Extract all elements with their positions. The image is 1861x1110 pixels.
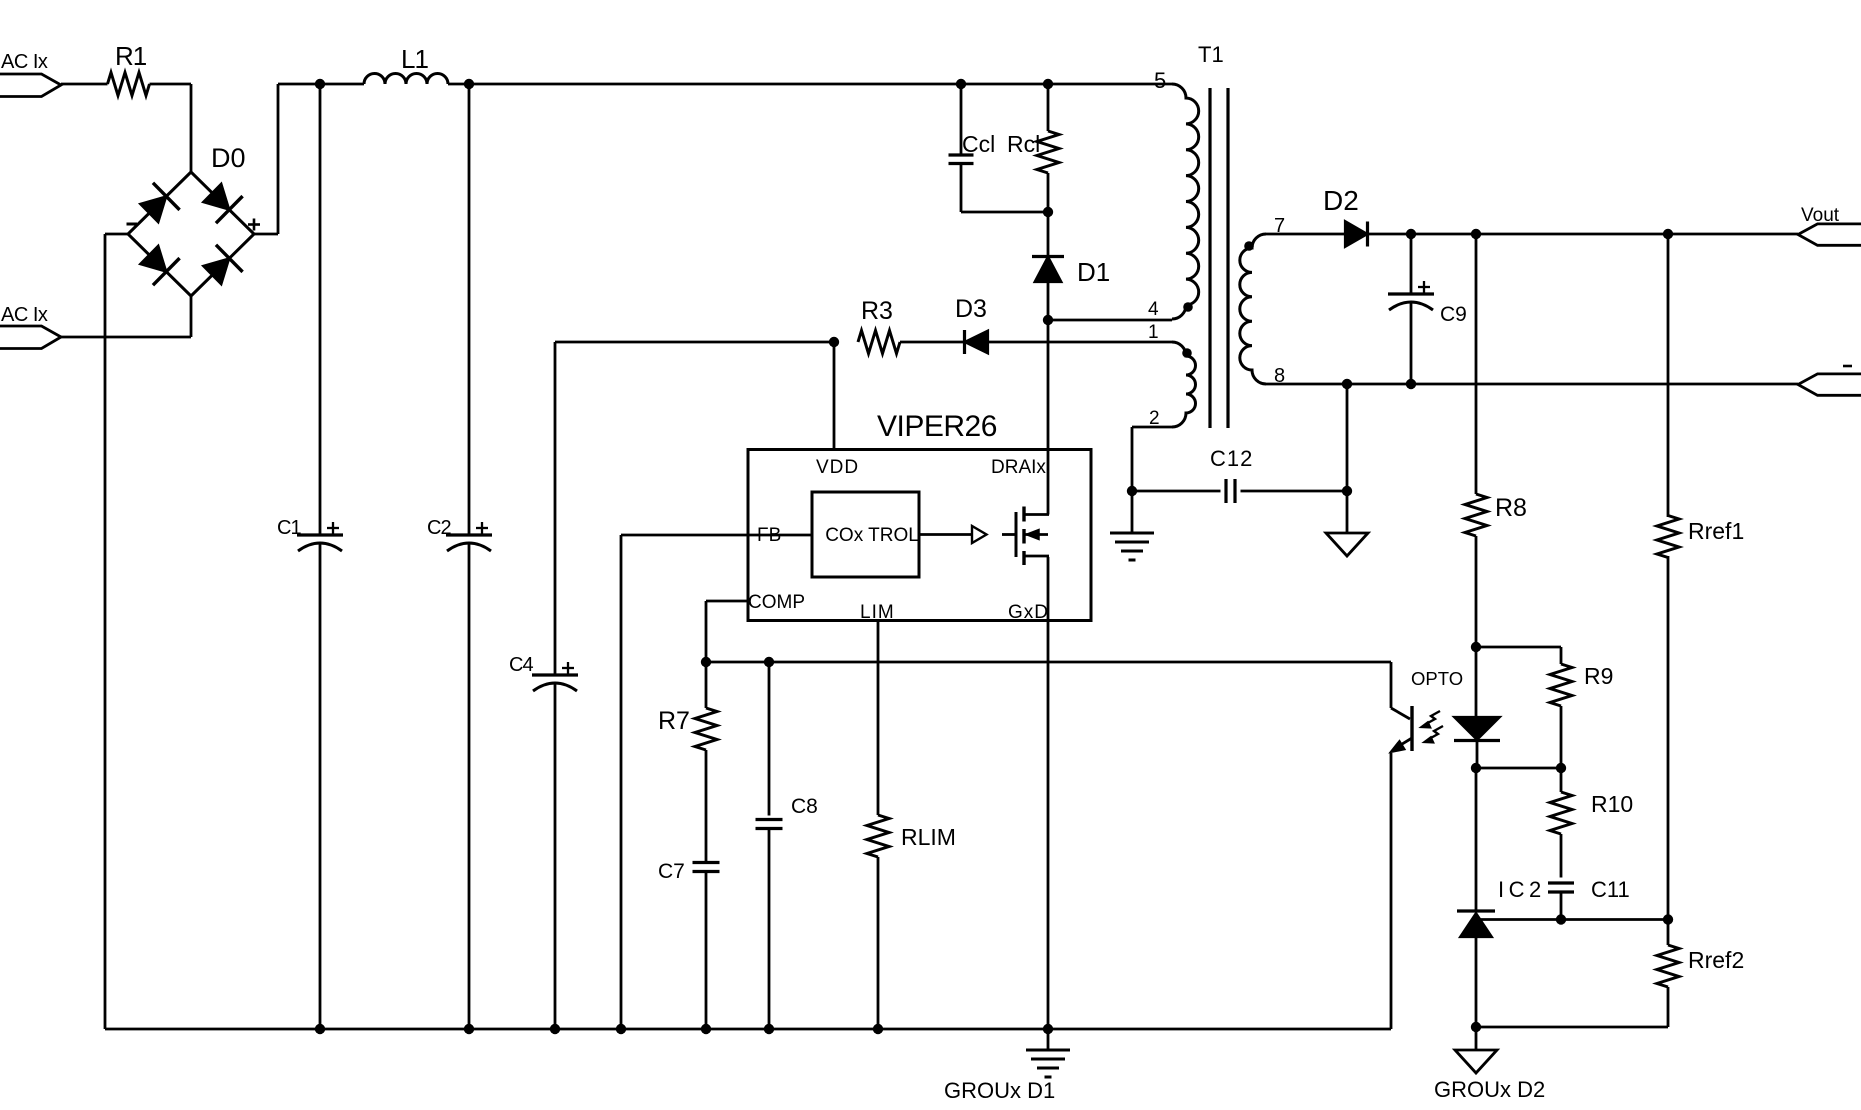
wire Rref2 return — [1476, 1026, 1668, 1029]
svg-text:R3: R3 — [861, 297, 893, 325]
wire bridge plus to top rail — [254, 84, 278, 234]
node C2 bottom — [464, 1024, 474, 1034]
resistor R1 — [108, 41, 150, 96]
wire VDD drop — [833, 342, 836, 450]
transistor Q1 power MOSFET — [1016, 507, 1049, 566]
diode D3 — [955, 295, 988, 354]
node drain pin4 junction — [1043, 315, 1053, 325]
svg-text:R8: R8 — [1495, 494, 1527, 522]
capacitor C11 — [1548, 877, 1630, 920]
resistor Rref1 — [1657, 234, 1744, 920]
connector AC input (top) — [0, 51, 61, 97]
wire COMP node to opto — [706, 661, 1391, 664]
wire D2 to Vout — [1367, 233, 1798, 236]
node COMP junction — [701, 657, 711, 667]
node C2 top — [464, 79, 474, 89]
node ref junction — [1663, 914, 1673, 924]
svg-text:Vout: Vout — [1801, 205, 1840, 226]
resistor R9 — [1550, 663, 1613, 768]
svg-text:C4: C4 — [509, 654, 533, 676]
resistor R8 — [1465, 234, 1527, 647]
svg-text:C7: C7 — [658, 860, 685, 883]
svg-text:RLIM: RLIM — [901, 824, 956, 850]
wire C4 top to R3 — [555, 341, 837, 344]
node C7 bottom — [701, 1024, 711, 1034]
node secondary polarity dot — [1244, 241, 1254, 251]
svg-text:R7: R7 — [658, 707, 690, 735]
ground earth (primary) — [944, 1029, 1070, 1103]
capacitor C4 — [509, 342, 578, 1029]
node RLIM bottom — [873, 1024, 883, 1034]
bridge rectifier D0 — [127, 143, 261, 296]
svg-text:VDD: VDD — [816, 457, 859, 478]
wire aux pin2 — [1132, 427, 1172, 491]
wire control block to buffer — [919, 533, 972, 536]
opto-coupler OPTO phototransistor — [1390, 662, 1443, 1029]
svg-text:VIPER26: VIPER26 — [877, 410, 997, 443]
node C8 bottom — [764, 1024, 774, 1034]
wire AC1 to R1 — [61, 83, 108, 86]
svg-text:L1: L1 — [401, 44, 428, 74]
wire D3 to aux pin 1 — [965, 341, 1172, 344]
svg-text:Ccl: Ccl — [962, 131, 995, 157]
node C1 top — [315, 79, 325, 89]
wire top rail right of L1 — [448, 83, 1172, 86]
transformer T1 primary winding — [1148, 68, 1199, 320]
capacitor Ccl — [949, 84, 1049, 212]
svg-text:R1: R1 — [115, 41, 147, 71]
svg-text:AC Ix: AC Ix — [1, 51, 48, 73]
node C1 bottom — [315, 1024, 325, 1034]
ground triangle (secondary) — [1434, 1027, 1545, 1102]
diode D1 — [1032, 212, 1110, 320]
node LED cathode junction — [1471, 763, 1481, 773]
svg-text:COx TROL: COx TROL — [825, 525, 919, 546]
wire pin7 to D2 — [1266, 233, 1345, 236]
wire drain line — [1047, 320, 1050, 515]
svg-text:GROUx D1: GROUx D1 — [944, 1078, 1055, 1103]
svg-text:Rref1: Rref1 — [1688, 518, 1744, 544]
node R8 top — [1471, 229, 1481, 239]
capacitor C8 — [756, 662, 818, 1029]
node secondary return — [1342, 379, 1352, 389]
svg-text:LIM: LIM — [860, 602, 895, 623]
ground earth (aux) — [1110, 491, 1154, 560]
wire LED node to R9 — [1476, 647, 1561, 664]
transformer T1 secondary winding — [1240, 215, 1285, 387]
node C9 bottom — [1406, 379, 1416, 389]
wire buffer to gate — [1002, 533, 1016, 536]
node Ccl top — [956, 79, 966, 89]
svg-text:C12: C12 — [1210, 446, 1253, 471]
wire FB into control block — [621, 534, 812, 537]
svg-text:D0: D0 — [211, 143, 246, 173]
node R10 top — [1556, 763, 1566, 773]
capacitor C2 — [427, 84, 492, 1029]
capacitor C7 — [658, 860, 720, 1029]
wire bridge minus to left rail — [105, 234, 128, 1029]
wire AC2 to bridge bottom — [61, 296, 191, 337]
wire secondary return drop — [1346, 384, 1349, 533]
node FB bottom — [616, 1024, 626, 1034]
svg-text:D1: D1 — [1077, 257, 1110, 287]
connector AC input (bottom) — [0, 304, 61, 349]
diode D2 — [1323, 185, 1368, 247]
resistor Rcl — [1007, 84, 1059, 212]
svg-text:D2: D2 — [1323, 185, 1359, 216]
node C11 bottom — [1556, 914, 1566, 924]
wire source to GxD to ground rail — [1047, 557, 1050, 1029]
svg-text:Rcl: Rcl — [1007, 131, 1040, 157]
svg-text:COMP: COMP — [748, 592, 805, 613]
resistor RLIM — [867, 621, 956, 1030]
svg-text:GxD: GxD — [1008, 602, 1049, 623]
wire top rail left of L1 — [278, 83, 364, 86]
transformer T1 auxiliary winding — [1148, 322, 1196, 429]
svg-text:R9: R9 — [1584, 663, 1613, 689]
node C9 top — [1406, 229, 1416, 239]
svg-text:AC Ix: AC Ix — [1, 304, 48, 326]
opto-coupler OPTO LED — [1411, 647, 1500, 768]
svg-text:C9: C9 — [1440, 303, 1467, 326]
node aux polarity dot — [1182, 348, 1192, 358]
connector Vout — [1798, 205, 1861, 245]
resistor R7 — [658, 662, 717, 863]
svg-text:T1: T1 — [1198, 42, 1224, 67]
svg-text:C11: C11 — [1591, 877, 1630, 902]
node aux ground junction — [1127, 486, 1137, 496]
node C8 top — [764, 657, 774, 667]
svg-text:DRAIx: DRAIx — [991, 457, 1046, 478]
resistor R3 — [858, 297, 900, 354]
svg-text:OPTO: OPTO — [1411, 668, 1463, 689]
op-amp U1 VIPER26 body — [748, 410, 1091, 623]
node secondary ground junction — [1471, 1022, 1481, 1032]
resistor Rref2 — [1657, 920, 1744, 1028]
capacitor C9 — [1388, 234, 1467, 384]
node opto LED top — [1471, 642, 1481, 652]
node Ccl-Rcl junction — [1043, 207, 1053, 217]
node Rref1 top — [1663, 229, 1673, 239]
ground triangle (secondary, C12) — [1326, 533, 1368, 556]
shunt regulator IC2 — [1457, 768, 1546, 1027]
wire LED cathode to R10 — [1476, 767, 1561, 770]
wire R3 to D3 — [900, 341, 963, 344]
svg-text:Rref2: Rref2 — [1688, 947, 1744, 973]
inductor L1 — [364, 44, 448, 84]
svg-text:4: 4 — [1148, 299, 1159, 320]
node GxD bottom — [1043, 1024, 1053, 1034]
svg-text:C1: C1 — [277, 517, 301, 539]
buffer gate driver — [972, 526, 987, 543]
transformer T1 core — [1198, 42, 1228, 428]
svg-text:GROUx D2: GROUx D2 — [1434, 1077, 1545, 1102]
svg-text:1: 1 — [1148, 322, 1159, 343]
wire IC2 ref line — [1476, 918, 1668, 921]
wire FB drop — [620, 535, 623, 1029]
node Rcl top — [1043, 79, 1053, 89]
connector minus output — [1798, 366, 1861, 395]
svg-text:IC2: IC2 — [1498, 877, 1546, 902]
wire primary ground rail — [105, 1028, 1391, 1031]
wire COMP elbow — [706, 601, 748, 662]
svg-text:R10: R10 — [1591, 791, 1633, 817]
node C4 bottom — [550, 1024, 560, 1034]
node VDD junction — [829, 337, 839, 347]
svg-text:C2: C2 — [427, 517, 451, 539]
svg-text:C8: C8 — [791, 795, 818, 818]
svg-text:D3: D3 — [955, 295, 987, 323]
capacitor C1 — [277, 84, 343, 1029]
capacitor C12 — [1132, 446, 1347, 503]
wire secondary bottom rail — [1266, 383, 1798, 386]
svg-text:5: 5 — [1154, 68, 1166, 93]
resistor R10 — [1550, 768, 1633, 878]
node primary polarity dot — [1183, 302, 1193, 312]
control block COx TROL — [812, 492, 919, 577]
node C12 right junction — [1342, 486, 1352, 496]
wire R1 to bridge top — [150, 84, 192, 172]
wire pin4 to drain node — [1048, 319, 1172, 322]
